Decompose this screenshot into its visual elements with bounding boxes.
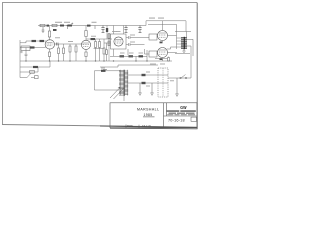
resistor R17	[139, 55, 144, 57]
resistor R13 PI	[113, 26, 115, 35]
transformer T2 output	[181, 32, 187, 50]
resistor R10 tone slope	[91, 38, 96, 40]
capacitor C3 coupling	[57, 43, 59, 46]
capacitor C14 decouple	[42, 27, 45, 33]
wire secondary A	[128, 74, 158, 76]
ground sym G1	[138, 83, 142, 95]
wire grid 1	[20, 41, 46, 43]
resistor R26 mains	[30, 71, 35, 74]
wire PI feed	[104, 42, 111, 44]
svg-text:DWN: DWN	[127, 125, 133, 128]
resistor R3 grid	[30, 46, 35, 48]
resistor R4 anode V1	[49, 26, 51, 32]
wire PI to grid B	[145, 49, 150, 54]
wire mains live	[20, 61, 50, 67]
switch S2 standby	[181, 75, 186, 79]
wire V5 anode tap	[167, 47, 177, 49]
potentiometer VR3 treble	[95, 39, 97, 42]
wire rail drop V2	[94, 26, 96, 30]
capacitor C2	[25, 48, 28, 62]
resistor R29 on rail	[47, 25, 50, 27]
resistor R30 on rail	[87, 25, 91, 27]
transformer T1 mains	[119, 70, 128, 96]
resistor R1 grid stopper	[32, 40, 37, 42]
capacitor C4 PI out A	[126, 36, 149, 39]
wire OT bottom	[175, 52, 190, 54]
grid box B	[149, 51, 157, 57]
text speck fuse	[101, 67, 105, 70]
wire grid 2	[20, 47, 46, 49]
potentiometer VR5 bass	[103, 39, 105, 48]
resistor R19 cathode V5	[160, 58, 163, 60]
wire screen line	[148, 23, 177, 25]
capacitor C13 can	[158, 68, 168, 97]
resistor R11	[106, 50, 108, 55]
resistor R8 anode V2	[85, 26, 87, 31]
capacitor C11 filter	[124, 26, 127, 33]
tube V4 output	[158, 31, 168, 41]
transformer T2 output primary	[176, 24, 178, 49]
node rail junction	[67, 25, 69, 27]
wire secondary B	[128, 82, 158, 84]
capacitor C15 decouple	[53, 29, 57, 31]
potentiometer VR1 volume	[69, 44, 71, 46]
svg-text:GW: GW	[180, 105, 187, 110]
resistor R25 presence	[168, 57, 170, 58]
wire can internals	[158, 75, 168, 83]
wire mains neutral	[20, 67, 38, 72]
wire ground rail	[20, 60, 172, 62]
fuse F3	[101, 70, 106, 72]
wire presence	[155, 58, 168, 60]
wire mains drop	[19, 61, 21, 78]
wire B+ top line	[146, 21, 186, 32]
wire B+ rail top	[38, 25, 146, 27]
tube V3 phase inverter	[111, 34, 127, 49]
resistor R9 cathode V2	[85, 49, 87, 52]
resistor R15 tail	[113, 49, 115, 55]
resistor R23 on rail	[68, 25, 72, 27]
potentiometer VR2 volume	[75, 44, 77, 46]
resistor R2 grid stopper	[40, 40, 45, 42]
text specks component values	[55, 18, 174, 87]
wire primary loop	[94, 71, 119, 90]
wire input drop	[19, 40, 21, 61]
wire V4 screen tap	[168, 35, 177, 37]
wire OT top	[175, 31, 191, 33]
wire OT sec 1	[187, 39, 193, 56]
input jack J1	[21, 46, 30, 51]
wire V4 anode up	[162, 21, 164, 31]
plus mark	[71, 23, 73, 25]
wire HT top	[100, 65, 158, 67]
resistor R28 PI grid	[108, 41, 110, 46]
diode D2	[142, 82, 146, 84]
resistor R18 cathode V4	[160, 42, 163, 44]
wire V5 screen tap	[168, 52, 177, 55]
resistor R21 on rail	[52, 24, 57, 26]
capacitor C5 PI out B	[126, 43, 145, 46]
resistor R14 PI	[123, 26, 125, 35]
speaker jack J2	[183, 49, 185, 50]
switch S1 mains	[20, 73, 31, 77]
capacitor C12 filter	[138, 26, 141, 33]
tube V1	[45, 40, 54, 49]
resistor R5 mixer	[58, 44, 60, 48]
capacitor C10 filter	[101, 26, 104, 33]
resistor R7 cathode V1	[49, 49, 51, 52]
resistor R27 PI grid	[108, 33, 110, 61]
potentiometer VR4 middle	[99, 39, 101, 42]
tube V2	[81, 40, 90, 49]
wire PI bottom	[110, 49, 147, 61]
resistor R22 on rail	[60, 25, 64, 27]
grid box A	[149, 34, 157, 40]
resistor R6 mixer	[63, 44, 65, 48]
wire V2 anode to tone	[86, 38, 112, 40]
fuse F1	[33, 66, 38, 68]
resistor R20 on rail	[40, 24, 45, 26]
logo text lines	[166, 110, 196, 115]
ground sym G2	[150, 83, 154, 95]
wire T1 bottom stub	[123, 96, 125, 102]
svg-text:1985: 1985	[144, 113, 153, 117]
voltage selector arrows	[110, 88, 124, 100]
svg-text:JULY 70: JULY 70	[142, 125, 152, 128]
wire OT sec 2	[187, 46, 191, 53]
svg-text:70-16-18: 70-16-18	[168, 119, 185, 123]
diode D1	[142, 74, 146, 76]
resistor R16 bias	[129, 55, 134, 57]
capacitor C1 input	[21, 52, 23, 53]
wire tone wipers	[94, 47, 105, 49]
wire V1 out	[54, 43, 83, 45]
tube V5 output	[158, 48, 168, 58]
resistor R12 dropper	[106, 26, 108, 29]
wire HT out	[168, 53, 191, 78]
border frame (decorative)	[3, 3, 198, 125]
title block	[110, 103, 197, 128]
ground sym G3	[175, 78, 179, 96]
node junction dots	[25, 60, 147, 61]
indicator box	[35, 76, 39, 79]
svg-text:MARSHALL: MARSHALL	[137, 108, 159, 112]
